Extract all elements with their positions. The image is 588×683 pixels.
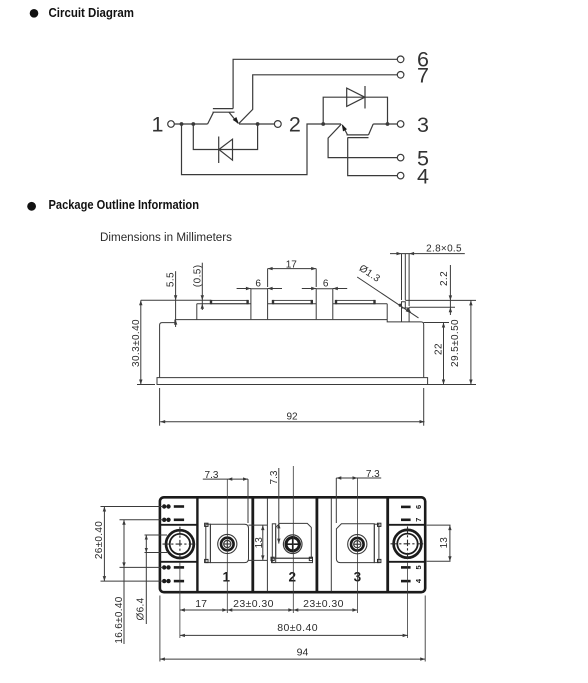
wire: Q2 gate to terminal 4	[348, 138, 398, 176]
mounting hole right (inner)	[397, 534, 417, 554]
terminal pad 2 bottom strip	[272, 558, 313, 562]
side view: terminal post 2	[316, 289, 333, 320]
mounting hole right (outer)	[394, 530, 422, 558]
svg-text:17: 17	[286, 260, 298, 271]
terminal pad 2 body	[276, 523, 312, 558]
terminal 1 screw hole	[218, 534, 237, 553]
dimension 26±0.40 (left)	[101, 506, 164, 508]
dimension 2.2 (tab height)	[449, 265, 451, 315]
IGBT Q1 body bar	[213, 111, 235, 113]
svg-text:Circuit Diagram: Circuit Diagram	[49, 5, 135, 20]
svg-text:7.3: 7.3	[269, 470, 280, 484]
side view: terminal post 1	[251, 289, 268, 320]
right cap pin mark 6	[401, 506, 411, 509]
mounting hole left (outer)	[166, 530, 194, 558]
dimension 6 (post 1 width)	[237, 288, 251, 290]
section bullet: Circuit Diagram	[30, 9, 39, 18]
front view: divider 2	[251, 498, 254, 591]
IGBT Q2 body bar	[347, 134, 369, 136]
dimension 7.3 (pad 3)	[336, 477, 381, 479]
front view: divider 4	[386, 498, 389, 591]
node C (junction diode D1 right)	[256, 122, 260, 126]
svg-text:94: 94	[297, 647, 309, 659]
IGBT Q1 collector lead	[208, 112, 214, 124]
wire: Q2 aux emitter to terminal 5	[328, 124, 397, 157]
wire: Q1 aux emitter to terminal 7	[239, 75, 397, 124]
front view: divider 3	[315, 498, 318, 591]
terminal 5	[397, 154, 404, 161]
dimension 22 (right shoulder height)	[443, 323, 445, 385]
front view: module outline	[160, 497, 425, 592]
node B (junction to diode D1)	[191, 122, 195, 126]
svg-text:Ø1.3: Ø1.3	[357, 263, 382, 285]
terminal 7	[397, 72, 404, 79]
svg-text:6: 6	[255, 278, 261, 289]
side view: fast-on tab 2.8x0.5	[402, 302, 406, 308]
terminal 1	[168, 121, 175, 128]
diode D2 triangle	[347, 88, 365, 106]
terminal 3 screw hole	[348, 535, 367, 554]
dimension 7.3 (pad 2, vertical)	[278, 468, 280, 544]
svg-text:(0.5): (0.5)	[193, 265, 204, 288]
side view: fast-on tab block	[402, 308, 410, 322]
dimension 13 (pad height, middle)	[249, 524, 268, 526]
diode D2 cathode bar	[364, 86, 366, 109]
left cap pin mark row 3	[174, 566, 184, 569]
svg-text:4: 4	[417, 164, 429, 188]
terminal pad 2 clamp strip left	[272, 524, 275, 563]
svg-text:23±0.30: 23±0.30	[303, 598, 344, 610]
terminal 2	[274, 121, 281, 128]
svg-text:6: 6	[414, 505, 423, 509]
svg-text:5.5: 5.5	[166, 272, 177, 287]
right cap pin mark 4	[401, 580, 411, 583]
dimension row 17 / 23±0.30 / 23±0.30	[180, 609, 358, 611]
svg-text:23±0.30: 23±0.30	[233, 598, 274, 610]
svg-text:Package Outline Information: Package Outline Information	[49, 197, 200, 212]
terminal 2 screw hole	[283, 535, 302, 554]
svg-text:7.3: 7.3	[366, 469, 380, 480]
centerline pad 3	[356, 478, 358, 613]
svg-text:13: 13	[254, 537, 265, 549]
terminal pad 1 clamp strip	[206, 524, 211, 562]
centerline pad 1	[226, 479, 228, 613]
IGBT Q2 collector lead	[369, 124, 374, 135]
svg-text:1: 1	[152, 113, 164, 137]
svg-text:13: 13	[439, 537, 450, 549]
diode D1 triangle	[219, 139, 233, 160]
dimension 92 (body width)	[160, 421, 424, 423]
svg-text:Dimensions in Millimeters: Dimensions in Millimeters	[100, 230, 232, 244]
dimension 5.5 (plate top to platform base)	[175, 271, 177, 327]
left cap pin mark row 1	[174, 505, 184, 508]
terminal 6	[397, 56, 404, 63]
terminal pad 3 clamp strip	[374, 524, 379, 562]
centerline pad 2	[292, 466, 294, 613]
left cap pin mark row 2	[174, 518, 184, 521]
IGBT Q1 emitter lead with arrow	[229, 112, 238, 123]
dimension 6 (post 2 width)	[302, 288, 316, 290]
node E (junction diode D2 right)	[386, 122, 390, 126]
svg-text:29.5±0.50: 29.5±0.50	[450, 319, 461, 367]
centerline hole right	[407, 562, 409, 638]
dimension (0.5) lid plate thickness	[201, 263, 203, 310]
side view: module body outline	[160, 320, 175, 378]
svg-text:80±0.40: 80±0.40	[277, 622, 318, 634]
dimension 80±0.40	[180, 634, 408, 636]
left cap pin mark row 4	[174, 580, 184, 583]
svg-text:Ø6.4: Ø6.4	[136, 597, 147, 620]
dimension 30.3±0.40 (left height)	[140, 300, 142, 384]
side view: lid plate 1	[211, 300, 248, 303]
dimension 94 (overall width)	[160, 658, 425, 660]
side view: internal platform base line	[175, 319, 387, 321]
dimension 7.3 (pad 1)	[203, 478, 248, 480]
wire: bottom rail from node A to right half	[182, 124, 342, 175]
svg-text:7: 7	[414, 518, 423, 522]
svg-text:7.3: 7.3	[205, 470, 219, 481]
svg-text:2: 2	[289, 113, 301, 137]
front view: divider 1	[196, 498, 198, 591]
dimension 17 (between posts)	[268, 268, 317, 270]
dimension 2.8×0.5 (tab section)	[390, 253, 465, 255]
diode D1 cathode bar	[218, 137, 220, 164]
dimension 16.6±0.40 (left)	[120, 519, 164, 521]
dimension 29.5±0.50 (right height)	[470, 300, 472, 384]
dimension Ø6.4 (mounting hole)	[145, 534, 168, 536]
svg-text:5: 5	[414, 565, 423, 569]
front view: inner line section 3 left	[330, 498, 332, 591]
diode D2 branch wire	[323, 97, 387, 124]
svg-text:16.6±0.40: 16.6±0.40	[114, 596, 125, 643]
leader Ø1.3 (tab hole)	[357, 277, 418, 318]
wire: Q1 gate to terminal 6	[233, 59, 397, 108]
front view: inner line section 2 left	[266, 498, 268, 591]
wire: Q2 collector to terminal 3	[373, 123, 397, 125]
side view: right step and shoulder	[387, 304, 424, 378]
side view: lid plate 2	[273, 300, 312, 303]
svg-text:4: 4	[414, 578, 423, 583]
side view: body bottom	[160, 377, 424, 379]
node A (junction to bottom rail)	[180, 122, 184, 126]
IGBT Q2 gate bar	[348, 137, 369, 139]
svg-text:26±0.40: 26±0.40	[94, 521, 105, 559]
terminal pad 1 body	[210, 524, 248, 562]
side view: platform top surface	[197, 303, 251, 305]
svg-text:6: 6	[323, 278, 329, 289]
terminal 3	[397, 121, 404, 128]
IGBT Q2 emitter lead with arrow	[343, 125, 348, 135]
svg-text:30.3±0.40: 30.3±0.40	[131, 319, 142, 367]
centerline hole left	[179, 562, 181, 638]
front view: left cap band	[161, 524, 198, 526]
terminal 4	[397, 172, 404, 179]
wire: terminal 1 to Q1 collector	[174, 123, 207, 125]
svg-text:2: 2	[289, 569, 297, 584]
mounting hole left crosshair	[163, 543, 198, 545]
svg-text:17: 17	[195, 598, 207, 610]
mounting hole left (inner Ø6.4)	[170, 534, 190, 554]
terminal pad 3 body	[336, 524, 374, 563]
dimension 13 (pad height, right)	[427, 524, 451, 526]
svg-text:2.8×0.5: 2.8×0.5	[426, 243, 462, 254]
svg-text:2.2: 2.2	[439, 271, 450, 286]
node D (junction diode D2 left)	[321, 122, 325, 126]
right cap pin mark 7	[401, 518, 411, 521]
svg-text:22: 22	[434, 343, 445, 355]
svg-text:7: 7	[417, 64, 429, 88]
side view: lid plate 3	[336, 300, 375, 303]
wire: Q1 emitter to terminal 2	[239, 123, 274, 125]
svg-text:3: 3	[417, 113, 429, 137]
right cap pin mark 5	[401, 566, 411, 569]
mounting hole right crosshair	[391, 543, 425, 545]
section bullet: Package Outline Information	[27, 202, 36, 211]
IGBT Q1 gate bar	[213, 108, 233, 110]
svg-text:92: 92	[286, 411, 298, 422]
front view: right cap band	[388, 524, 425, 526]
side view: baseplate	[157, 378, 428, 385]
svg-text:1: 1	[223, 569, 231, 584]
diode D1 branch wire	[193, 124, 257, 150]
